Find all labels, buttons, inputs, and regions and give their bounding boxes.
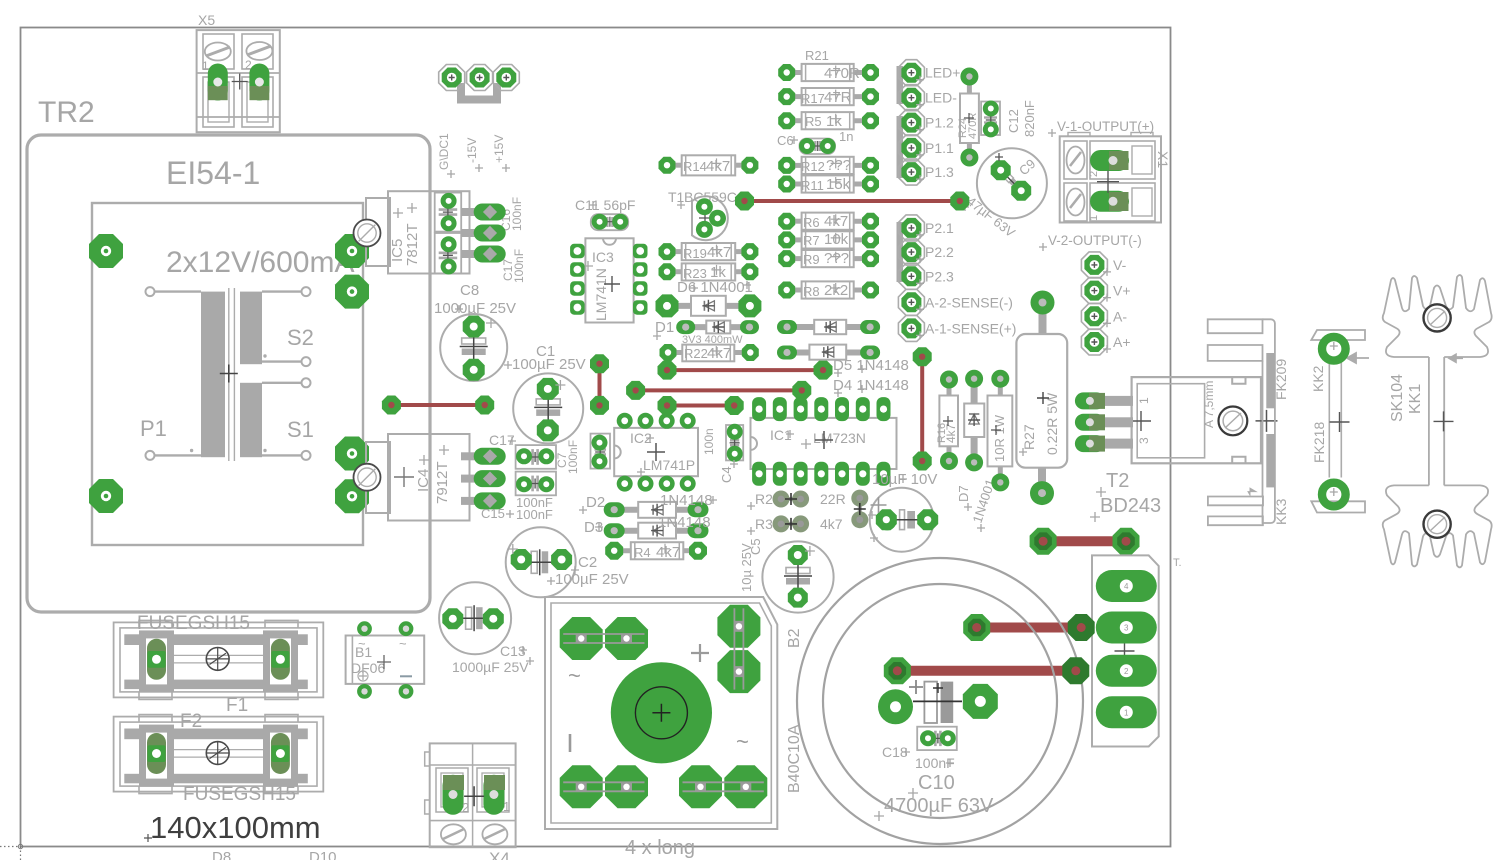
- capacitor C11 label: [575, 197, 635, 213]
- op-amp IC3 pad right 2: [633, 262, 648, 277]
- svg-text:V-2-OUTPUT(-): V-2-OUTPUT(-): [1048, 233, 1142, 248]
- op-amp IC2 pad bottom 0: [617, 476, 633, 492]
- capacitor C7 label: [555, 440, 580, 474]
- capacitor C14: [870, 488, 939, 552]
- svg-text:FK218: FK218: [1311, 422, 1327, 463]
- heatsink SK104 screw bottom: [1424, 511, 1451, 538]
- connector X1 outline: [1060, 133, 1171, 223]
- pin pad P1.1: [898, 135, 924, 161]
- transistor T1 label: [668, 189, 737, 224]
- diode D4 label: [833, 377, 909, 397]
- capacitor C17 label: [489, 432, 516, 448]
- connector X5 outline: [197, 12, 280, 132]
- heatsink SK104 screw top: [1424, 304, 1451, 331]
- resistor R2: [773, 491, 810, 508]
- IC1 pad bottom 4: [814, 462, 828, 486]
- svg-text:+15V: +15V: [492, 135, 506, 163]
- connector X2 pad 3: [1096, 612, 1157, 644]
- svg-text:A-2-SENSE(-): A-2-SENSE(-): [925, 294, 1013, 310]
- resistor R2 label: [747, 491, 846, 510]
- svg-text:3: 3: [1137, 437, 1151, 444]
- capacitor C6 label: [777, 129, 853, 148]
- op-amp IC2 pad top 0: [617, 413, 633, 429]
- transistor T1 outline: [692, 196, 728, 240]
- resistor R17: [778, 88, 879, 106]
- svg-text:T2: T2: [1106, 470, 1129, 492]
- resistor R4: [605, 542, 707, 561]
- resistor R7: [778, 231, 879, 249]
- svg-text:D6 1N4001: D6 1N4001: [677, 279, 753, 296]
- connector X2 pad 4: [1096, 570, 1157, 602]
- svg-text:P2.3: P2.3: [925, 268, 954, 284]
- svg-text:2: 2: [245, 58, 252, 72]
- via thick 3a: [884, 657, 911, 684]
- capacitor C9 label: [961, 156, 1038, 240]
- svg-text:4k7: 4k7: [820, 516, 843, 532]
- fuse F2 holder: [114, 715, 324, 794]
- svg-text:820nF: 820nF: [1022, 100, 1037, 137]
- svg-text:D8: D8: [212, 849, 231, 860]
- fuse F1 pad left: [147, 639, 166, 680]
- capacitor C15 label: [481, 495, 553, 522]
- svg-text:C17: C17: [489, 432, 515, 448]
- stray pad: [878, 512, 896, 530]
- fuse F2 pad left: [147, 733, 166, 774]
- pad V+: [1081, 278, 1107, 304]
- svg-text:S2: S2: [287, 325, 314, 350]
- capacitor C10 label: [874, 772, 994, 821]
- svg-text:100nF: 100nF: [512, 249, 526, 283]
- transformer TR2 core rect: [92, 203, 363, 545]
- svg-text:A-1-SENSE(+): A-1-SENSE(+): [925, 320, 1016, 336]
- via T5b: [792, 381, 811, 400]
- diode D3: [604, 523, 709, 539]
- svg-text:R21: R21: [805, 48, 829, 63]
- op-amp IC2 pad top 3: [680, 413, 696, 429]
- pin label P2.2: [916, 244, 954, 263]
- resistor R8: [778, 281, 879, 299]
- label D8: [212, 849, 231, 860]
- op-amp IC2 pad bottom 3: [680, 476, 696, 492]
- capacitor C16: [435, 193, 462, 232]
- bridge B2 pad pair TL: [560, 617, 648, 660]
- diode D4: [777, 345, 880, 360]
- resistor R9: [778, 250, 879, 267]
- bridge rectifier B1: [346, 636, 425, 684]
- svg-text:10µ 25V: 10µ 25V: [739, 543, 754, 592]
- resistor R26: [988, 370, 1013, 492]
- svg-text:100µF 25V: 100µF 25V: [555, 571, 629, 588]
- svg-text:P2.2: P2.2: [925, 244, 954, 260]
- svg-text:S1: S1: [287, 417, 314, 442]
- transformer TR2 pad 6: [335, 479, 369, 513]
- connector X2 outline: [1092, 555, 1159, 746]
- transformer TR2 pins: [146, 287, 311, 460]
- regulator IC1 outline: [751, 418, 897, 469]
- resistor R16: [936, 371, 958, 471]
- resistor R5: [778, 112, 879, 130]
- capacitor C11: [591, 214, 628, 231]
- svg-text:LED+: LED+: [925, 65, 960, 81]
- svg-text:1: 1: [1088, 215, 1100, 221]
- svg-text:~: ~: [736, 729, 749, 754]
- transformer TR2 winding symbol: [201, 288, 262, 461]
- svg-text:R3: R3: [755, 516, 773, 532]
- svg-text:10R 1W: 10R 1W: [992, 414, 1007, 462]
- svg-text:IC1: IC1: [770, 427, 792, 443]
- pin label LED-: [916, 90, 957, 109]
- svg-text:C12: C12: [1006, 109, 1021, 133]
- IC1 pad top 1: [752, 397, 766, 421]
- wire thick trace 3: [897, 666, 1076, 676]
- svg-text:2: 2: [1124, 667, 1129, 676]
- capacitor C5: [762, 541, 833, 612]
- svg-text:1N4148: 1N4148: [660, 492, 713, 509]
- resistor R12: [778, 157, 879, 174]
- via T7a: [658, 396, 677, 415]
- svg-text:X5: X5: [198, 12, 215, 28]
- resistor R21: [778, 48, 879, 82]
- net label G DC1: [437, 133, 455, 178]
- net label V+: [1103, 283, 1131, 302]
- svg-text:2: 2: [462, 800, 469, 815]
- transistor T1 pad 2: [709, 210, 726, 227]
- svg-text:P1.3: P1.3: [925, 164, 954, 180]
- IC1 pad top 5: [835, 397, 849, 421]
- svg-text:P1: P1: [140, 416, 167, 441]
- capacitor C14 label: [872, 471, 937, 488]
- svg-text:C8: C8: [460, 282, 479, 299]
- wire trace vertical mid: [598, 364, 602, 406]
- capacitor C17a label: [501, 249, 526, 283]
- bridge B2 marks: [568, 644, 749, 754]
- heatsink KK3 bracket: [1208, 319, 1275, 525]
- op-amp IC2 pad top 1: [638, 413, 654, 429]
- IC1 pad bottom 1: [752, 462, 766, 486]
- wire trace R16 vertical: [920, 357, 924, 461]
- svg-text:A-: A-: [1113, 308, 1127, 324]
- tiny edge mark: [1173, 557, 1182, 569]
- IC1 pad top 7: [877, 397, 891, 421]
- svg-text:10k: 10k: [824, 231, 849, 248]
- connector X1 cross: [1097, 171, 1119, 193]
- capacitor C18 label: [882, 744, 955, 771]
- svg-text:0.22R 5W: 0.22R 5W: [1044, 392, 1060, 455]
- svg-text:IC4: IC4: [415, 469, 432, 492]
- pad A+: [1081, 329, 1107, 355]
- svg-text:4700µF 63V: 4700µF 63V: [884, 795, 994, 817]
- IC1 pad bottom 3: [794, 462, 808, 486]
- svg-text:R7: R7: [803, 233, 820, 248]
- capacitor C10 symbol: [909, 680, 962, 723]
- heatsink SK104 outline: [1383, 275, 1492, 567]
- capacitor C15: [516, 472, 556, 496]
- svg-text:R8: R8: [803, 284, 820, 299]
- transistor T2 screw: [1219, 407, 1248, 436]
- svg-text:1000µF 25V: 1000µF 25V: [452, 659, 529, 675]
- capacitor C1 label: [504, 343, 586, 373]
- svg-text:~: ~: [399, 636, 407, 651]
- pin pad LED+: [898, 60, 924, 86]
- transistor T2 cross: [1256, 410, 1278, 432]
- capacitor C10 outline: [797, 558, 1083, 844]
- wire trace upper mid: [667, 368, 823, 372]
- wire thick trace 2: [977, 623, 1081, 633]
- regulator IC5 outline: [366, 191, 470, 273]
- via T4b: [475, 396, 494, 415]
- svg-text:4: 4: [1124, 582, 1129, 591]
- svg-text:FUSEGSH15: FUSEGSH15: [183, 784, 296, 805]
- op-amp IC3 pad right 1: [633, 244, 648, 258]
- regulator IC4 screw: [354, 464, 381, 491]
- svg-text:T1: T1: [668, 189, 685, 205]
- svg-text:100n: 100n: [702, 428, 716, 455]
- connector X4 outline: [425, 743, 516, 847]
- net label V-: [1103, 257, 1127, 276]
- svg-text:X4: X4: [489, 849, 510, 860]
- IC1 pad top 4: [814, 397, 828, 421]
- diode D6 label: [677, 279, 753, 296]
- op-amp IC2 pad bottom 2: [659, 476, 675, 492]
- svg-text:R9: R9: [803, 252, 820, 267]
- svg-text:3: 3: [1124, 624, 1129, 633]
- svg-text:1: 1: [503, 799, 510, 814]
- resistor R23: [659, 263, 759, 281]
- capacitor C5 label: [739, 538, 763, 592]
- fuse F1 label FUSEGSH15: [137, 613, 250, 634]
- board outline frame: [0, 28, 1171, 860]
- capacitor C10 pad plus: [878, 689, 913, 724]
- diode D3 label: [584, 514, 711, 536]
- svg-text:P1.2: P1.2: [925, 115, 954, 131]
- svg-text:1: 1: [202, 59, 209, 73]
- svg-text:~: ~: [568, 663, 581, 688]
- svg-text:R11: R11: [801, 178, 824, 193]
- svg-text:D2: D2: [586, 494, 605, 511]
- wire trace long mid: [636, 388, 802, 392]
- svg-text:R4: R4: [634, 545, 651, 560]
- capacitor C2: [506, 527, 576, 597]
- capacitor C16 label: [499, 197, 524, 231]
- IC1 pad top 3: [794, 397, 808, 421]
- svg-text:LM741N: LM741N: [593, 268, 609, 321]
- fuse F1 holder: [114, 620, 324, 699]
- transistor T2 pad 3: [1075, 435, 1105, 452]
- svg-text:470R: 470R: [824, 65, 860, 82]
- svg-text:A 7,5mm: A 7,5mm: [1202, 381, 1216, 428]
- fuse F1 label F1: [226, 695, 248, 716]
- transformer TR2 pad 2: [89, 479, 123, 513]
- pin label P1.2: [916, 115, 954, 134]
- pin pad P2.2: [898, 239, 924, 265]
- capacitor C17a: [435, 233, 462, 275]
- pin pad P2.3: [898, 263, 924, 289]
- net label V-2-OUTPUT(-): [1039, 233, 1142, 251]
- svg-text:100nF: 100nF: [510, 197, 524, 231]
- pin pad P1.3: [898, 159, 924, 185]
- via T6b: [814, 361, 833, 380]
- net label V-1-OUTPUT(+): [1048, 119, 1154, 137]
- svg-text:4k7: 4k7: [656, 544, 680, 561]
- heatsink KK2 outline: [1311, 330, 1369, 513]
- IC1 pad top 2: [773, 397, 787, 421]
- op-amp IC2 pad top 2: [659, 413, 675, 429]
- resistor R11: [778, 175, 879, 193]
- capacitor C17: [516, 445, 556, 469]
- svg-text:BD243: BD243: [1100, 495, 1161, 517]
- net label -15V: [465, 138, 483, 172]
- pin label P1.1: [916, 140, 954, 159]
- op-amp IC2 outline: [614, 428, 698, 476]
- fuse F2 screw symbol: [206, 742, 229, 765]
- svg-text:V-1-OUTPUT(+): V-1-OUTPUT(+): [1057, 119, 1154, 134]
- op-amp IC3 pad 6 left: [570, 281, 585, 296]
- pad V-: [1081, 252, 1107, 278]
- connector X5 pad 2: [245, 58, 269, 101]
- transformer TR2 pad 5: [335, 437, 369, 471]
- svg-text:100µF 25V: 100µF 25V: [512, 356, 586, 373]
- svg-text:C10: C10: [918, 772, 955, 794]
- regulator IC4 pad 2: [461, 470, 506, 487]
- via T1a: [735, 192, 754, 211]
- svg-text:D7: D7: [956, 485, 971, 502]
- wire trace T1 top: [745, 199, 960, 203]
- svg-text:SK104: SK104: [1389, 374, 1406, 422]
- regulator IC5 screw: [354, 220, 381, 247]
- svg-text:1: 1: [1124, 708, 1129, 717]
- via T4a: [382, 396, 401, 415]
- svg-text:EI54-1: EI54-1: [166, 155, 260, 191]
- via T2a: [913, 347, 932, 366]
- svg-text:C2: C2: [578, 554, 597, 571]
- transistor T2 label: [1090, 470, 1161, 522]
- IC1 pad bottom 6: [856, 462, 870, 486]
- via thick 1b: [1113, 528, 1140, 555]
- svg-text:TR2: TR2: [38, 96, 95, 129]
- pin label A-1-SENSE(+): [916, 320, 1016, 339]
- resistor R22: [660, 344, 759, 362]
- diode D5: [777, 320, 880, 334]
- capacitor C13: [439, 582, 511, 654]
- pad -15V octagon: [467, 65, 493, 91]
- svg-text:D4 1N4148: D4 1N4148: [833, 377, 909, 394]
- bridge B2 label: [786, 628, 803, 793]
- svg-text:F1: F1: [226, 695, 248, 716]
- connector X1 pad 2: [1088, 150, 1129, 177]
- via T5a: [626, 381, 645, 400]
- resistor R19: [659, 243, 759, 261]
- svg-text:2: 2: [1088, 171, 1100, 177]
- capacitor C9: [977, 148, 1047, 218]
- label 4 x long: [625, 837, 695, 859]
- pad A-: [1081, 303, 1107, 329]
- svg-text:R23: R23: [683, 266, 707, 281]
- pin header bracket 1: [897, 66, 904, 104]
- fuse F2 label F2: [180, 711, 202, 732]
- svg-text:C11 56pF: C11 56pF: [575, 197, 635, 213]
- svg-text:???: ???: [826, 157, 851, 174]
- heatsink KK2 pad top: [1322, 337, 1346, 361]
- diode D6: [656, 294, 762, 317]
- svg-text:7812T: 7812T: [404, 223, 421, 266]
- regulator IC4 labels: [394, 445, 451, 504]
- svg-text:R12: R12: [801, 159, 825, 174]
- wire thick trace 1: [1043, 536, 1126, 546]
- bridge rectifier B2 outline: [545, 597, 777, 829]
- svg-text:P1.1: P1.1: [925, 140, 954, 156]
- svg-text:1N4148: 1N4148: [658, 514, 711, 531]
- svg-text:1000µF 25V: 1000µF 25V: [434, 300, 516, 317]
- regulator IC5 pad 2: [461, 225, 506, 242]
- resistor R6: [778, 213, 879, 230]
- regulator IC4 outline: [366, 434, 470, 521]
- svg-text:~: ~: [358, 636, 366, 651]
- svg-text:FK209: FK209: [1273, 359, 1289, 400]
- svg-text:IC3: IC3: [592, 249, 614, 265]
- bridge B2 pad pair BR: [679, 765, 767, 808]
- transistor T2 lead 2: [1098, 417, 1133, 427]
- transistor T2 lead 3: [1098, 439, 1133, 449]
- transistor T1 pad 3: [696, 221, 713, 238]
- regulator IC5 labels: [389, 203, 421, 266]
- capacitor C10 pad minus: [963, 684, 998, 719]
- pin header bracket 2: [897, 116, 904, 178]
- svg-text:KK1: KK1: [1407, 384, 1424, 414]
- svg-text:C4: C4: [719, 466, 734, 483]
- diode D7 label: [956, 477, 998, 532]
- capacitor C12: [981, 101, 1000, 138]
- svg-text:100nF: 100nF: [566, 440, 580, 474]
- pin pad P1.2: [898, 110, 924, 136]
- transistor T1 pad 1: [696, 198, 713, 215]
- svg-text:V-: V-: [1113, 257, 1127, 273]
- bridge B1 pad 4: [399, 684, 414, 699]
- connector X1 pad 1: [1088, 191, 1129, 221]
- svg-text:F2: F2: [180, 711, 202, 732]
- bridge B2 pad pair TR: [717, 605, 760, 693]
- via thick 2a: [963, 614, 990, 641]
- svg-text:1n: 1n: [839, 129, 853, 144]
- fuse F1 screw symbol: [206, 648, 229, 671]
- diode D7: [964, 370, 984, 472]
- svg-text:140x100mm: 140x100mm: [150, 810, 321, 845]
- capacitor C8: [440, 305, 507, 381]
- pin pad LED-: [898, 85, 924, 111]
- transformer TR2 label 2x12V/600mA: [166, 246, 354, 279]
- svg-text:4k7: 4k7: [707, 345, 731, 362]
- net label A+: [1103, 334, 1131, 353]
- resistor R24: [957, 68, 979, 167]
- transistor T2 lead 1: [1098, 396, 1133, 406]
- via T2b: [913, 452, 932, 471]
- svg-text:R22: R22: [684, 346, 708, 361]
- capacitor C1: [513, 373, 583, 443]
- svg-text:V+: V+: [1113, 283, 1131, 299]
- regulator IC5 pad 1: [461, 204, 506, 221]
- regulator IC4 pad 1: [461, 448, 506, 465]
- svg-text:FUSEGSH15: FUSEGSH15: [137, 613, 250, 634]
- net label +15V: [492, 135, 510, 172]
- pad group bracket: [461, 83, 497, 100]
- diode D5 label: [833, 357, 909, 377]
- pad GND octagon: [439, 65, 465, 91]
- op-amp IC3 pad right 4: [633, 300, 648, 315]
- svg-text:B2: B2: [786, 628, 803, 648]
- transformer TR2 label EI54-1: [166, 155, 260, 191]
- resistor R3 label: [747, 516, 843, 535]
- svg-text:R14: R14: [683, 159, 707, 174]
- svg-text:4k7: 4k7: [707, 244, 731, 261]
